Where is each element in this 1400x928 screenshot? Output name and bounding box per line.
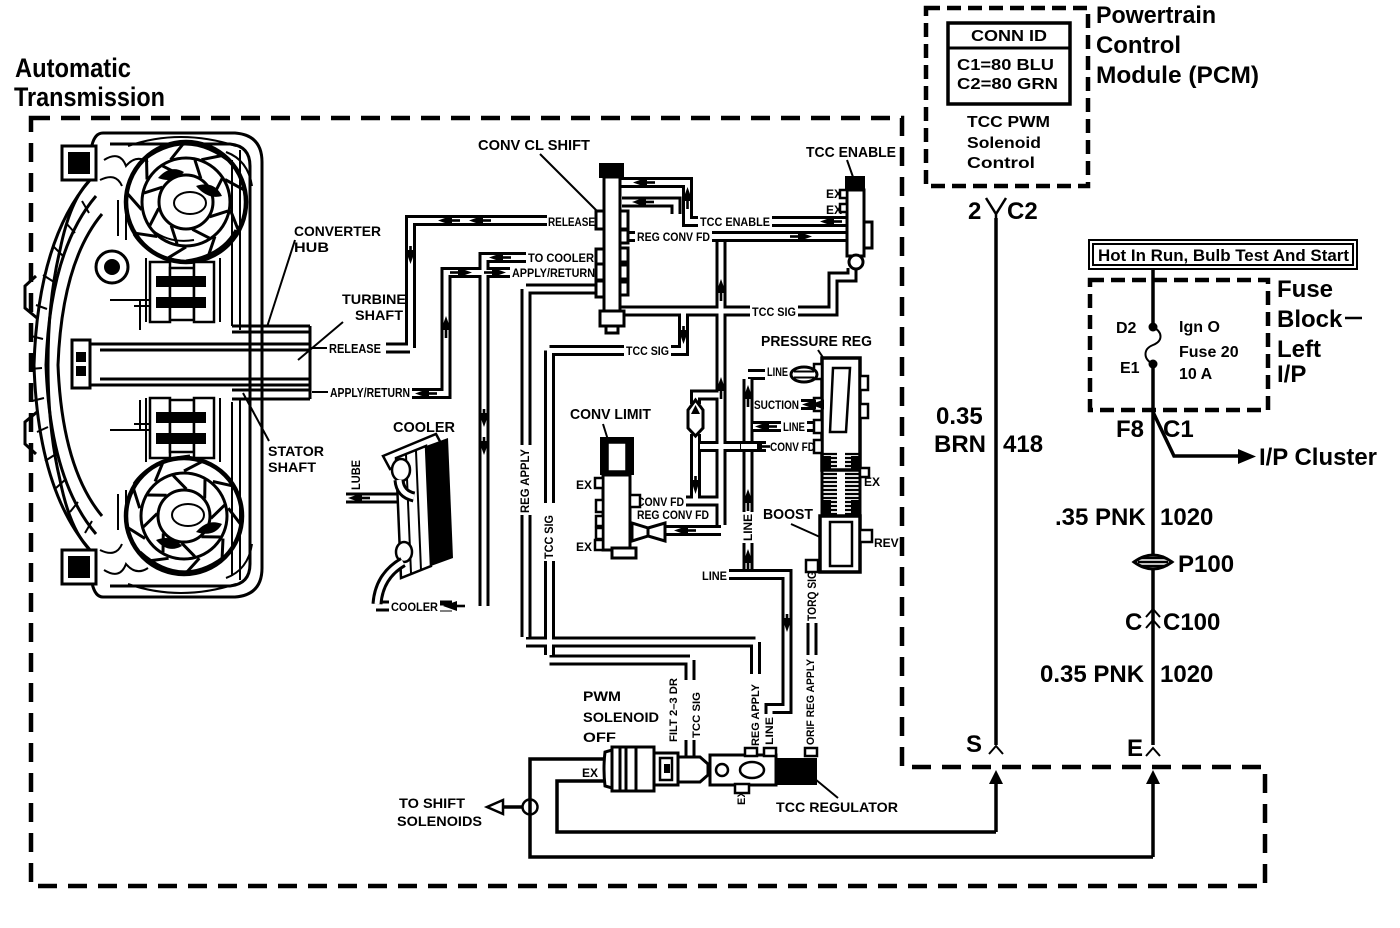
- svg-text:REG CONV FD: REG CONV FD: [637, 230, 710, 244]
- orifice on V1: [688, 400, 703, 436]
- svg-text:SHAFT: SHAFT: [355, 307, 403, 323]
- svg-text:I/P: I/P: [1277, 361, 1306, 388]
- svg-text:PWM: PWM: [583, 688, 621, 704]
- left protrusion bottom: [25, 412, 37, 454]
- reg conv fd lower left arrow: [674, 526, 688, 536]
- svg-text:F8: F8: [1116, 416, 1144, 443]
- svg-text:REG CONV FD: REG CONV FD: [637, 508, 709, 522]
- svg-text:P100: P100: [1178, 551, 1234, 578]
- wire line bottom run: [729, 575, 787, 757]
- svg-text:0.35 PNK: 0.35 PNK: [1040, 661, 1145, 688]
- svg-text:0.35: 0.35: [936, 403, 983, 430]
- pass-through grommet P100: [1134, 551, 1234, 578]
- svg-text:REV: REV: [874, 536, 899, 550]
- wire S return run to PWM solenoid: [557, 781, 996, 832]
- svg-text:Module (PCM): Module (PCM): [1096, 62, 1259, 89]
- release vertical down arrow: [406, 250, 416, 264]
- upper torus: [126, 142, 246, 262]
- svg-text:Automatic: Automatic: [15, 53, 131, 83]
- tcc sig upper junction down arrow: [679, 330, 689, 344]
- svg-text:LINE: LINE: [767, 365, 788, 379]
- spring section: [823, 454, 859, 514]
- svg-text:TCC PWM: TCC PWM: [967, 114, 1050, 131]
- wire 0.35 BRN 418 from PCM C2 to solenoid S: [994, 218, 998, 745]
- wire release passage long run: [411, 221, 548, 349]
- node V2 vertical reg conv fd to tcc sig to reg conv fd lower: [716, 242, 727, 525]
- svg-text:COOLER: COOLER: [393, 419, 455, 436]
- shaft left cap: [72, 340, 90, 388]
- wire suction stub: [801, 399, 822, 410]
- terminal E: [1127, 735, 1160, 762]
- PCM dashed box: [926, 8, 1088, 186]
- svg-text:TCC SIG: TCC SIG: [752, 305, 796, 319]
- transmission boundary dashed box: [31, 118, 1265, 886]
- line branch left arrow: [755, 422, 769, 432]
- inner wall verticals: [232, 150, 240, 580]
- svg-text:C2=80 GRN: C2=80 GRN: [957, 76, 1058, 93]
- solenoid PWM assembly: [604, 747, 708, 791]
- wire apply/return passage: [412, 273, 510, 394]
- component name labels: [243, 137, 899, 815]
- svg-text:BRN: BRN: [934, 431, 986, 458]
- Hot In Run label box: [1089, 240, 1357, 269]
- svg-text:EX: EX: [582, 766, 598, 780]
- svg-text:LUBE: LUBE: [349, 460, 363, 490]
- svg-text:RELEASE: RELEASE: [329, 341, 381, 356]
- torque converter cutaway: [25, 133, 262, 597]
- cover flange squiggles lower: [100, 544, 148, 574]
- EX stub right: [860, 468, 869, 477]
- svg-text:TCC REGULATOR: TCC REGULATOR: [776, 799, 898, 815]
- svg-text:2: 2: [968, 198, 981, 225]
- tcc enable loop arrows: [633, 178, 647, 188]
- svg-text:TCC SIG: TCC SIG: [626, 344, 669, 358]
- svg-text:E1: E1: [1120, 360, 1140, 377]
- clutch pack upper: [150, 262, 214, 322]
- svg-text:E: E: [1127, 735, 1143, 762]
- suction double arrow: [802, 400, 816, 410]
- shaft body: [85, 344, 310, 385]
- svg-text:OFF: OFF: [583, 729, 617, 745]
- svg-text:D2: D2: [1116, 320, 1137, 337]
- connector C100: [1125, 609, 1220, 636]
- wire conv fd line from conv limit: [686, 496, 721, 507]
- CONN ID table: [948, 23, 1070, 104]
- valve TCC ENABLE: [840, 176, 872, 269]
- bolt top left: [62, 146, 96, 180]
- svg-text:Hot In Run, Bulb Test And Star: Hot In Run, Bulb Test And Start: [1098, 246, 1349, 265]
- wire reg apply passage: [526, 289, 756, 674]
- node V1 vertical with orifice: [696, 395, 722, 501]
- svg-text:.35 PNK: .35 PNK: [1055, 504, 1146, 531]
- wire tcc sig lower run: [550, 311, 691, 756]
- pin 2 connector C2: [968, 198, 1038, 225]
- svg-text:SHAFT: SHAFT: [268, 459, 316, 475]
- release arrows left: [438, 216, 452, 226]
- svg-text:LINE: LINE: [741, 514, 755, 541]
- connector F8 C1: [1116, 416, 1194, 443]
- fuse block title: [1277, 276, 1362, 388]
- wire E return run to PWM solenoid: [530, 759, 1153, 857]
- lower torus: [126, 458, 242, 574]
- svg-text:EX: EX: [576, 478, 592, 492]
- svg-text:TCC ENABLE: TCC ENABLE: [806, 144, 896, 161]
- to cooler left arrow: [489, 253, 503, 263]
- valve TCC REGULATOR: [710, 748, 817, 793]
- wire from E entering transmission: [1146, 770, 1160, 857]
- terminal S: [966, 731, 1003, 758]
- outer body: [48, 133, 262, 597]
- wire out of fuse block: [1151, 364, 1155, 745]
- svg-text:REG APPLY: REG APPLY: [518, 449, 532, 513]
- svg-text:CONV FD: CONV FD: [637, 495, 684, 509]
- svg-text:C100: C100: [1163, 609, 1220, 636]
- wire conv fd crossing to pressure reg: [700, 441, 822, 452]
- V1 down arrow: [691, 480, 700, 494]
- valve CONV LIMIT: [595, 437, 665, 558]
- crossover of CONV FD line over LINE vertical: [740, 441, 758, 452]
- wire label 0.35 PNK 1020: [1040, 661, 1213, 688]
- svg-text:Left: Left: [1277, 336, 1321, 363]
- wire reg conv fd run: [625, 231, 846, 242]
- svg-text:COOLER: COOLER: [391, 600, 438, 614]
- svg-text:BOOST: BOOST: [763, 506, 813, 523]
- lube left arrow: [348, 493, 362, 503]
- bolt bottom left: [62, 550, 96, 584]
- wire tcc enable loop from conv cl shift valve: [612, 183, 846, 222]
- misc internal lines: [110, 300, 140, 430]
- apply/return right arrows: [458, 268, 472, 278]
- turbine shaft assembly: [72, 326, 310, 399]
- svg-text:PRESSURE REG: PRESSURE REG: [761, 333, 872, 350]
- svg-text:418: 418: [1003, 431, 1043, 458]
- pump ring: [96, 251, 128, 283]
- wire line net central vertical: [748, 375, 822, 570]
- svg-text:Fuse: Fuse: [1277, 276, 1333, 303]
- svg-text:TORQ SIG: TORQ SIG: [805, 571, 819, 621]
- svg-text:SOLENOIDS: SOLENOIDS: [397, 813, 482, 829]
- svg-text:S: S: [966, 731, 982, 758]
- fuse block dashed box: [1090, 280, 1268, 410]
- svg-text:Control: Control: [967, 155, 1035, 172]
- svg-text:REG APPLY: REG APPLY: [750, 683, 762, 746]
- svg-text:RELEASE: RELEASE: [548, 215, 595, 229]
- svg-text:TCC ENABLE: TCC ENABLE: [700, 215, 770, 229]
- label TO SHIFT SOLENOIDS: [397, 795, 482, 829]
- svg-text:Block: Block: [1277, 306, 1343, 333]
- reg conv fd right arrow: [798, 232, 812, 242]
- wire cooler return to cooler: [440, 601, 452, 612]
- svg-text:APPLY/RETURN: APPLY/RETURN: [512, 266, 595, 280]
- title Automatic Transmission: [14, 53, 165, 112]
- svg-text:SOLENOID: SOLENOID: [583, 709, 659, 725]
- svg-text:HUB: HUB: [294, 239, 329, 255]
- orifice lens on LINE at pressure reg: [791, 367, 817, 382]
- svg-text:LINE: LINE: [783, 420, 805, 434]
- converter hub sleeve: [232, 326, 310, 344]
- to cooler vertical down arrows: [479, 413, 489, 427]
- branch wire to I/P Cluster: [1153, 412, 1377, 471]
- svg-text:TO SHIFT: TO SHIFT: [399, 795, 465, 811]
- svg-text:STATOR: STATOR: [268, 443, 324, 459]
- svg-text:Powertrain: Powertrain: [1096, 2, 1216, 29]
- conv fd crossing left arrow: [748, 442, 762, 452]
- valve CONV CL SHIFT: [596, 163, 628, 333]
- svg-text:CONVERTER: CONVERTER: [294, 223, 381, 239]
- wire label .35 PNK 1020: [1055, 504, 1213, 531]
- svg-text:TO COOLER: TO COOLER: [528, 251, 594, 265]
- svg-text:SUCTION: SUCTION: [754, 398, 799, 412]
- svg-text:C: C: [1125, 609, 1142, 636]
- left protrusion top: [25, 276, 37, 318]
- svg-text:TURBINE: TURBINE: [342, 291, 406, 307]
- cover flange squiggles upper: [100, 156, 148, 186]
- wire tcc sig upper run: [620, 268, 852, 311]
- wire to-cooler passage: [484, 258, 526, 607]
- PCM function label TCC PWM Solenoid Control: [967, 114, 1050, 172]
- svg-text:Fuse 20: Fuse 20: [1179, 344, 1239, 361]
- HYDRAULIC PASSAGES (white channel): [346, 183, 852, 757]
- V2 up arrows: [716, 279, 726, 293]
- svg-text:I/P Cluster: I/P Cluster: [1259, 444, 1377, 471]
- svg-text:TCC SIG: TCC SIG: [691, 692, 703, 738]
- svg-text:APPLY/RETURN: APPLY/RETURN: [330, 385, 410, 400]
- line central up arrows: [743, 385, 753, 399]
- svg-text:CONV FD: CONV FD: [770, 440, 815, 454]
- flow arrows: [348, 178, 842, 633]
- svg-text:Solenoid: Solenoid: [967, 135, 1041, 152]
- wire reg conv fd lower with nozzle: [666, 525, 721, 536]
- wire from S entering transmission: [989, 770, 1003, 832]
- svg-text:CONN ID: CONN ID: [971, 28, 1047, 45]
- wire into fuse block: [1151, 269, 1155, 326]
- passage labels: [349, 215, 819, 746]
- svg-text:C1=80 BLU: C1=80 BLU: [957, 57, 1054, 74]
- clutch pack lower: [150, 398, 214, 458]
- svg-text:LINE: LINE: [764, 717, 776, 745]
- splice junction to shift solenoids: [487, 800, 538, 815]
- HYDRAULIC PASSAGES (black outer): [346, 183, 852, 757]
- svg-text:Control: Control: [1096, 32, 1181, 59]
- svg-text:ORIF REG APPLY: ORIF REG APPLY: [805, 658, 817, 745]
- svg-text:CONV LIMIT: CONV LIMIT: [570, 406, 651, 423]
- svg-text:Ign O: Ign O: [1179, 319, 1220, 336]
- cooler inlet pipe: [399, 480, 414, 497]
- svg-text:EX: EX: [576, 540, 592, 554]
- svg-text:FILT 2–3 DR: FILT 2–3 DR: [668, 678, 680, 742]
- svg-text:1020: 1020: [1160, 504, 1213, 531]
- wire torq sig orif reg apply vertical: [807, 565, 818, 753]
- svg-text:LINE: LINE: [702, 569, 727, 583]
- svg-text:10 A: 10 A: [1179, 366, 1213, 383]
- cooler assembly: [377, 434, 453, 604]
- valve BOOST: [820, 516, 860, 572]
- line bottom down arrow: [782, 618, 792, 632]
- left bell outer: [34, 180, 90, 550]
- valve PRESSURE REG with BOOST: [806, 358, 872, 572]
- wire line branch to pressure reg: [753, 421, 822, 432]
- wire lube line: [346, 493, 415, 504]
- apply/return vertical up arrow: [441, 316, 451, 330]
- PCM title: [1096, 2, 1259, 89]
- cooler outlet pipe: [377, 562, 403, 604]
- svg-text:CONV CL SHIFT: CONV CL SHIFT: [478, 137, 590, 154]
- svg-text:TCC SIG: TCC SIG: [542, 515, 556, 559]
- nozzle into reg conv fd line: [632, 523, 665, 541]
- svg-text:1020: 1020: [1160, 661, 1213, 688]
- apply/return left arrow at bottom: [415, 389, 429, 399]
- stator shaft lines: [232, 385, 310, 399]
- fuse Ign O Fuse 20 10 A: [1116, 319, 1239, 383]
- svg-text:C2: C2: [1007, 198, 1038, 225]
- cooler line left arrow: [443, 601, 457, 611]
- svg-text:Transmission: Transmission: [14, 82, 165, 112]
